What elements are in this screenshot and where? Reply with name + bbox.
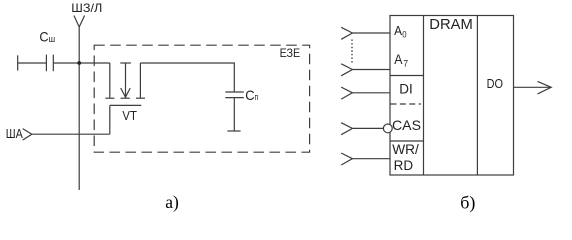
svg-text:A: A [394,52,402,67]
svg-text:7: 7 [403,59,408,70]
output arrow DO [538,81,552,94]
svg-text:DO: DO [487,77,504,91]
svg-text:WR/: WR/ [392,142,419,157]
capacitor Cп bottom terminal bar [227,130,240,132]
svg-text:VT: VT [122,109,137,123]
svg-text:ЕЗЕ: ЕЗЕ [280,46,301,60]
input arrow A0 [341,27,390,39]
divider left column [423,16,425,176]
inversion bubble CAS [383,124,392,133]
DRAM block outline [390,16,514,176]
input arrow A7 [341,64,390,76]
label Сш [39,28,55,44]
wire Cш to bit line and transistor source [53,62,110,64]
transistor VT drain electrode [136,63,145,98]
separator CAS/WR [390,140,424,142]
pin WR/RD [392,142,419,173]
pin A7 [394,52,408,70]
pin A0 [394,23,406,40]
svg-text:С: С [245,87,254,103]
divider right column [476,16,478,176]
dashed box ЕЗЕ storage cell [94,45,309,152]
svg-text:ШЗ/Л: ШЗ/Л [71,1,102,15]
wire bit line vertical [78,27,80,190]
transistor VT substrate arrow [120,63,131,98]
capacitor Cш left terminal bar [17,55,19,70]
capacitor Cш [46,55,53,72]
capacitor Cп [225,92,244,98]
svg-text:A: A [394,23,402,38]
address line input arrow [23,129,32,140]
wire terminal to Cш [18,62,47,64]
svg-text:RD: RD [394,158,414,173]
separator A7/DI [390,75,424,77]
transistor VT gate [110,105,142,134]
svg-text:С: С [39,28,48,44]
svg-text:DI: DI [399,82,413,97]
svg-text:б): б) [460,192,475,213]
wire drain to Cп [140,63,234,92]
dashed separator DI/CAS [391,103,422,105]
svg-text:CAS: CAS [392,117,421,133]
svg-text:ш: ш [49,34,56,44]
ellipsis dotted line [351,40,353,64]
svg-text:ША: ША [6,127,24,141]
bit line input arrow [74,16,85,28]
input arrow WR/RD [341,153,390,165]
output wire DO [514,86,552,88]
svg-text:DRAM: DRAM [429,16,473,33]
transistor VT source electrode [105,63,114,98]
label Сп [245,87,258,103]
wire address line ША to gate [32,133,110,135]
svg-text:а): а) [165,192,179,212]
input arrow CAS [341,123,383,135]
svg-text:п: п [255,92,259,102]
wire Cп to bottom terminal [233,98,235,131]
junction dot bit line node [77,61,81,65]
input arrow DI [341,87,390,99]
svg-text:0: 0 [402,29,406,40]
